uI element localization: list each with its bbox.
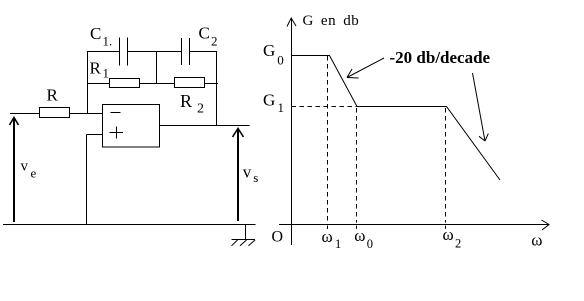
svg-text:O: O	[272, 228, 284, 245]
svg-text:2: 2	[211, 34, 218, 49]
svg-text:2: 2	[455, 236, 461, 250]
svg-text:ω: ω	[443, 225, 454, 244]
svg-text:v: v	[21, 159, 29, 175]
svg-text:R: R	[47, 86, 59, 105]
svg-text:1: 1	[278, 100, 285, 115]
svg-text:e: e	[31, 166, 37, 181]
svg-text:-20 db/decade: -20 db/decade	[390, 48, 491, 67]
svg-text:ω: ω	[531, 231, 542, 250]
svg-text:G: G	[263, 90, 275, 109]
svg-text:C: C	[199, 24, 210, 43]
svg-text:ω: ω	[322, 227, 333, 246]
svg-text:R: R	[90, 59, 102, 78]
svg-text:G: G	[263, 41, 275, 60]
svg-text:1: 1	[103, 66, 110, 81]
svg-text:1.: 1.	[103, 34, 113, 49]
svg-text:G en db: G en db	[303, 13, 360, 29]
svg-text:2: 2	[197, 102, 204, 117]
svg-text:1: 1	[335, 237, 341, 251]
svg-text:C: C	[90, 24, 101, 43]
svg-text:s: s	[253, 170, 258, 185]
svg-text:R: R	[180, 91, 192, 111]
svg-text:ω: ω	[354, 226, 365, 245]
svg-text:0: 0	[277, 52, 284, 67]
svg-text:v: v	[243, 162, 252, 181]
svg-text:0: 0	[367, 237, 373, 251]
